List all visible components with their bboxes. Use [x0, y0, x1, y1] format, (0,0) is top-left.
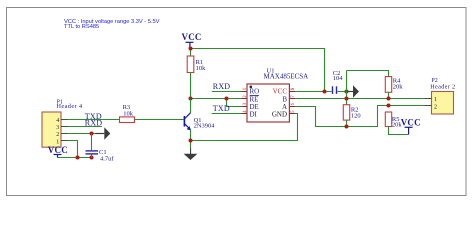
wire B line U1 pin7 to P2 pin1 — [295, 98, 425, 100]
wire P1 pin2 to gnd arrow — [68, 133, 96, 135]
pin 3 stub P1 — [61, 126, 68, 128]
svg-text:TTL to RS485: TTL to RS485 — [64, 24, 99, 30]
node C2/arrow junction — [345, 90, 349, 94]
pin 8 stub — [289, 91, 295, 93]
wire R3 to Q1 base — [135, 119, 184, 121]
transistor Q1 2N3904 — [184, 113, 216, 131]
svg-text:MAX485ECSA: MAX485ECSA — [264, 73, 309, 81]
resistor R3 — [120, 104, 135, 123]
svg-text:VCC: VCC — [182, 32, 202, 42]
svg-text:2N3904: 2N3904 — [194, 123, 216, 130]
svg-text:3: 3 — [56, 125, 59, 131]
wire TXD to U1 pin4 (DI) — [212, 113, 242, 115]
svg-text:GND: GND — [272, 111, 287, 119]
svg-text:4.7uf: 4.7uf — [100, 155, 114, 162]
svg-text:RXD: RXD — [213, 82, 231, 91]
ground (arrow down, at Q1) — [184, 149, 198, 161]
resistor R2 — [343, 105, 360, 120]
node C1 bottom / VCC rail — [90, 156, 94, 160]
pin 3 stub — [242, 106, 248, 108]
wire R1 bottom to junction — [190, 73, 192, 99]
wire RXD to U1 pin1 — [212, 91, 242, 93]
node R5 top on A — [387, 104, 391, 108]
pin 7 stub — [289, 98, 295, 100]
svg-text:2: 2 — [56, 132, 59, 138]
wire P1 pin3 RXD stub — [68, 126, 102, 128]
pin 6 stub — [289, 106, 295, 108]
wire VCC stem to rails — [190, 49, 192, 56]
node R2 bottom on A — [345, 125, 349, 129]
svg-text:4: 4 — [56, 118, 59, 124]
svg-text:120: 120 — [351, 112, 361, 119]
wire R5 bottom to VCC stem — [389, 127, 409, 135]
connector P2 Header 2 — [430, 78, 455, 114]
pin 5 stub — [289, 113, 295, 115]
pin 4 stub P1 — [61, 119, 68, 121]
pin 2 stub P2 — [425, 105, 432, 107]
wire VCC rail left to VCC port — [58, 157, 78, 159]
wire A line U1 pin6 routing — [295, 106, 425, 127]
svg-text:Header 4: Header 4 — [57, 103, 83, 110]
wire C2 right to gnd arrow junction — [337, 91, 346, 93]
wire R4 bottom to B line — [388, 92, 390, 98]
svg-text:DI: DI — [250, 111, 258, 119]
annotation text — [64, 19, 160, 30]
svg-text:TXD: TXD — [213, 104, 230, 113]
wire P1 pin4 to R3 — [68, 119, 120, 121]
node P1 pin1 / VCC rail — [76, 156, 80, 160]
node RE/DE junction — [225, 97, 229, 101]
node R4 bottom on B — [387, 97, 391, 101]
op-amp U1 MAX485ECSA — [247, 67, 308, 122]
pin numbers U1 right — [291, 87, 296, 113]
pin 4 stub — [242, 113, 248, 115]
capacitor C1 — [86, 134, 115, 163]
wire top rail to U1 pin8 — [191, 49, 325, 92]
node pin8/top-rail junction — [323, 90, 327, 94]
pin 1 stub P2 — [425, 98, 432, 100]
wire U1 pin5 GND routing to Q1 emitter node — [191, 114, 298, 141]
wire R2 bottom to A rail — [346, 120, 348, 126]
wire P1 pin1 to VCC rail — [68, 141, 92, 158]
node R1/RE/collector junction — [189, 97, 193, 101]
svg-text:2: 2 — [434, 104, 437, 110]
svg-text:1: 1 — [434, 97, 437, 103]
power port VCC (at P1, inverted) — [48, 145, 68, 157]
wire Q1 emitter down — [190, 129, 192, 149]
pin 2 stub P1 — [61, 133, 68, 135]
wire junction to U1 pin2 (RE) — [191, 98, 242, 100]
svg-text:104: 104 — [333, 75, 344, 82]
capacitor C2 — [332, 70, 344, 94]
pin 1 stub P1 — [61, 140, 68, 142]
svg-text:10k: 10k — [196, 65, 207, 72]
wire Q1 collector up — [190, 99, 192, 114]
sheet border — [7, 8, 467, 196]
node Q1 emitter / GND junction — [189, 139, 193, 143]
ground (arrow right, at C2) — [347, 85, 360, 97]
svg-text:VCC: VCC — [48, 145, 68, 155]
wire gnd rail down through B to R2 — [346, 71, 348, 105]
pin numbers U1 left — [243, 87, 248, 113]
wire gnd top rail to R4 — [347, 71, 389, 77]
svg-text:Header 2: Header 2 — [430, 83, 455, 90]
connector P1 Header 4 — [42, 99, 83, 147]
resistor R4 — [385, 77, 403, 93]
power port VCC (top) — [182, 32, 202, 49]
resistor R1 — [187, 56, 206, 73]
resistor R5 — [385, 112, 402, 129]
svg-text:10k: 10k — [123, 110, 134, 117]
node VCC junction — [189, 47, 193, 51]
svg-text:20k: 20k — [393, 84, 404, 91]
pin 1 stub — [242, 91, 248, 93]
pin 2 stub — [242, 98, 248, 100]
node C1 top junction — [90, 132, 94, 136]
ground (arrow right, at P1 pin2) — [96, 127, 111, 139]
svg-text:VCC: VCC — [401, 117, 421, 127]
node R2 top on B — [345, 97, 349, 101]
wire U1 pin8 to C2 — [295, 91, 332, 93]
power port VCC (at R5, inverted) — [401, 117, 421, 134]
wire RE to DE tie — [227, 99, 242, 107]
